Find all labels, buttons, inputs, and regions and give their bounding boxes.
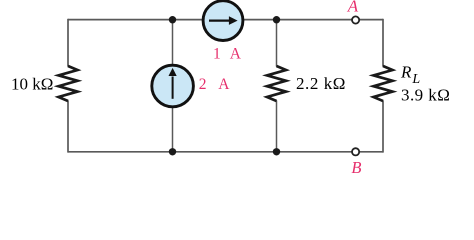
svg-text:2.2 kΩ: 2.2 kΩ xyxy=(296,74,346,93)
svg-text:A: A xyxy=(218,76,230,93)
wire left branch upper xyxy=(67,19,69,67)
terminal B open circle xyxy=(352,148,359,155)
junction dot top right xyxy=(273,16,280,23)
resistor 10 kOhm zigzag xyxy=(59,66,78,101)
current source 2 A arrow xyxy=(172,77,174,99)
junction dot bottom left xyxy=(169,148,176,155)
svg-text:B: B xyxy=(351,158,361,177)
svg-text:3.9 kΩ: 3.9 kΩ xyxy=(401,85,450,104)
junction dot bottom right xyxy=(273,148,280,155)
svg-text:1: 1 xyxy=(213,46,221,63)
wire left branch lower xyxy=(67,101,69,153)
wire right branch lower xyxy=(382,101,384,153)
wire bottom horizontal xyxy=(68,151,383,153)
wire 2.2k branch lower xyxy=(276,101,278,152)
current source 1 A circle xyxy=(203,1,243,41)
svg-text:A: A xyxy=(347,0,359,16)
wire 2.2k branch upper xyxy=(276,20,278,67)
wire 2A branch lower xyxy=(172,106,174,152)
svg-text:A: A xyxy=(230,46,242,63)
junction dot top left xyxy=(169,16,176,23)
svg-text:R: R xyxy=(400,63,412,82)
wire right branch upper xyxy=(382,19,384,67)
wire 2A branch upper xyxy=(172,20,174,66)
wire top horizontal xyxy=(68,19,383,21)
current source 1 A arrow xyxy=(209,20,230,22)
svg-text:10 kΩ: 10 kΩ xyxy=(11,74,53,93)
current source 2 A circle xyxy=(152,65,194,107)
terminal A open circle xyxy=(352,16,359,23)
svg-text:2: 2 xyxy=(199,76,207,93)
resistor RL zigzag xyxy=(374,66,393,101)
resistor 2.2 kOhm zigzag xyxy=(267,66,286,101)
